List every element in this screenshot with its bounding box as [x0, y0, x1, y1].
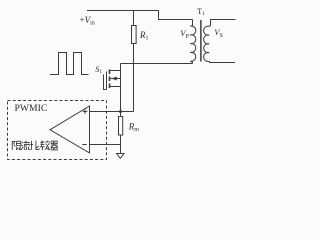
svg-text:PWMIC: PWMIC	[15, 103, 48, 114]
